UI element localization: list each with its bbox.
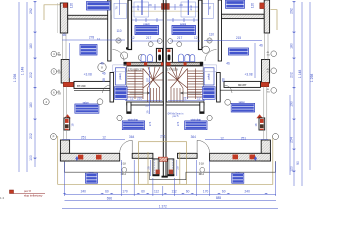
svg-text:240: 240 [245, 189, 251, 193]
interior horizontal wall left W9 [74, 81, 111, 90]
svg-text:696: 696 [107, 197, 113, 201]
svg-text:278: 278 [89, 36, 95, 40]
terrace step outline [65, 161, 276, 180]
left dim texts [13, 8, 33, 161]
svg-text:120: 120 [70, 3, 74, 9]
svg-text:12: 12 [194, 36, 198, 40]
svg-text:180: 180 [29, 102, 33, 108]
stair arrow right [181, 92, 202, 94]
interior horizontal wall right W9R [220, 81, 261, 90]
svg-text:217: 217 [146, 36, 152, 40]
T5 left kitchen table [80, 45, 97, 56]
mid wall with red lintels right [166, 62, 203, 66]
svg-text:pokój: pokój [208, 73, 211, 79]
bottom wall right of porch [178, 153, 198, 158]
stairwell boundary right [167, 67, 204, 103]
svg-text:170: 170 [122, 189, 128, 193]
mid wall with red lintels left [124, 62, 164, 66]
svg-text:20?: 20? [146, 104, 151, 108]
svg-text:D8-4: D8-4 [199, 173, 205, 176]
svg-text:276: 276 [176, 121, 180, 126]
outer wall left middle [61, 60, 74, 87]
top window boxes [114, 2, 214, 18]
red column right [256, 114, 264, 130]
svg-text:210: 210 [137, 97, 143, 101]
porch tan outline [139, 142, 187, 185]
svg-text:217: 217 [177, 36, 183, 40]
svg-text:12: 12 [220, 137, 224, 141]
wall top-right horizontal [222, 14, 265, 18]
svg-text:100: 100 [29, 155, 33, 161]
svg-text:46: 46 [100, 61, 104, 65]
window lines in wall openings [63, 33, 269, 140]
svg-text:poz 5: poz 5 [173, 115, 180, 118]
left dim lines [19, 2, 35, 172]
outer wall right middle [259, 60, 270, 87]
svg-text:D8-4: D8-4 [121, 173, 127, 176]
T6 right kitchen table [229, 48, 249, 55]
stairwell boundary left [127, 67, 163, 103]
svg-text:46: 46 [259, 44, 263, 48]
svg-text:60: 60 [222, 189, 226, 193]
svg-text:110: 110 [116, 29, 121, 33]
red column left [64, 114, 71, 130]
T2 top-right [226, 0, 245, 8]
svg-text:364: 364 [129, 135, 135, 139]
wall right interior vertical W3R [218, 0, 221, 61]
porch pillar left [152, 159, 159, 176]
svg-text:271: 271 [160, 134, 166, 138]
svg-text:112: 112 [154, 189, 159, 193]
bottom-left corner wall [60, 140, 119, 161]
svg-text:1 148: 1 148 [298, 70, 302, 79]
interior vertical wall left below W10 [110, 73, 114, 103]
svg-text:120: 120 [251, 3, 255, 9]
svg-text:202: 202 [29, 133, 33, 139]
svg-text:219: 219 [189, 5, 193, 10]
svg-text:364: 364 [191, 135, 197, 139]
right dim lines [294, 2, 310, 186]
svg-text:18?: 18? [145, 77, 149, 82]
svg-text:240: 240 [81, 189, 87, 193]
svg-text:68: 68 [222, 78, 226, 82]
svg-text:1 298: 1 298 [310, 74, 314, 83]
legend [10, 189, 46, 198]
svg-text:1 298: 1 298 [13, 74, 17, 83]
tan roof line top-center [131, 10, 199, 12]
tan roof outline top-left [44, 5, 60, 20]
porch small dims [151, 160, 177, 176]
svg-text:202: 202 [29, 72, 33, 78]
svg-text:29: 29 [147, 166, 151, 170]
svg-text:60: 60 [105, 189, 109, 193]
chimney right [166, 48, 172, 64]
porch red beam center [158, 157, 167, 161]
svg-text:219: 219 [136, 5, 140, 10]
svg-text:+3.08: +3.08 [84, 73, 92, 77]
outer wall top-right [260, 0, 270, 33]
svg-text:90: 90 [296, 161, 300, 165]
svg-text:251: 251 [81, 135, 87, 139]
svg-text:12: 12 [130, 97, 134, 101]
wall vertical left interior W3 [108, 0, 111, 61]
left dim ticks [33, 1, 37, 159]
svg-text:68: 68 [102, 78, 106, 82]
svg-text:87×90: 87×90 [77, 84, 86, 88]
wall vertical left2 W4 [128, 0, 132, 50]
porch pillar right [167, 159, 174, 176]
svg-text:46: 46 [62, 33, 66, 37]
svg-text:60: 60 [141, 189, 145, 193]
bottom wall left of porch [132, 153, 153, 158]
svg-text:110: 110 [209, 33, 214, 37]
svg-text:202: 202 [290, 72, 294, 78]
svg-text:słup żelbetowy: słup żelbetowy [24, 193, 43, 197]
tan roof outline top-right [271, 10, 278, 30]
svg-text:pokój: pokój [119, 73, 122, 79]
svg-text:5 18: 5 18 [199, 163, 204, 166]
svg-text:76: 76 [208, 6, 212, 10]
svg-text:poz 8: poz 8 [24, 189, 31, 193]
svg-text:1 372: 1 372 [159, 205, 167, 209]
outer wall top-left [57, 3, 67, 33]
stairwell bottom walls [127, 102, 204, 113]
svg-text:P: P [53, 135, 55, 139]
chimney left [156, 48, 162, 64]
svg-text:1 2: 1 2 [0, 196, 5, 200]
svg-text:251: 251 [241, 137, 247, 141]
door arc bottom-right entrance [197, 140, 210, 153]
svg-text:46: 46 [226, 62, 230, 66]
svg-text:29: 29 [148, 3, 152, 7]
T7 vertical table left of stairs [115, 68, 125, 85]
bottom-right corner wall [210, 140, 271, 161]
svg-text:76: 76 [115, 6, 119, 10]
svg-text:12: 12 [102, 135, 106, 139]
svg-text:180: 180 [290, 43, 294, 49]
svg-text:29: 29 [179, 3, 183, 7]
svg-text:292: 292 [290, 8, 294, 14]
svg-text:1 148: 1 148 [20, 67, 24, 76]
svg-text:12: 12 [131, 36, 135, 40]
T8 vertical table right of stairs [204, 68, 214, 85]
top micro dims [120, 0, 209, 15]
svg-text:90×87: 90×87 [238, 83, 247, 87]
interior vertical wall right below W10R [217, 73, 221, 103]
T1 top-left [87, 2, 111, 11]
svg-text:12: 12 [97, 37, 101, 41]
party wall [163, 0, 166, 176]
svg-text:29: 29 [176, 166, 180, 170]
door arc bottom-left entrance [120, 140, 133, 153]
svg-text:5 18: 5 18 [121, 163, 126, 166]
wall top-left horizontal [68, 15, 111, 19]
svg-text:+3.08: +3.08 [244, 73, 252, 77]
stair arrow left [130, 92, 151, 94]
interior door arcs [103, 50, 233, 94]
svg-text:170: 170 [203, 189, 209, 193]
svg-text:60: 60 [186, 189, 190, 193]
svg-text:885: 885 [216, 196, 222, 200]
door D symbols blue [141, 54, 195, 62]
svg-text:276: 276 [148, 121, 152, 126]
svg-text:46: 46 [102, 71, 106, 75]
svg-text:112: 112 [172, 189, 177, 193]
svg-text:215: 215 [236, 36, 242, 40]
svg-text:180: 180 [29, 43, 33, 49]
svg-text:217: 217 [183, 97, 189, 101]
red lintel at party wall top [162, 4, 170, 10]
svg-text:12: 12 [197, 97, 201, 101]
wall top-right vertical W4R [199, 0, 203, 50]
svg-text:292: 292 [29, 8, 33, 14]
